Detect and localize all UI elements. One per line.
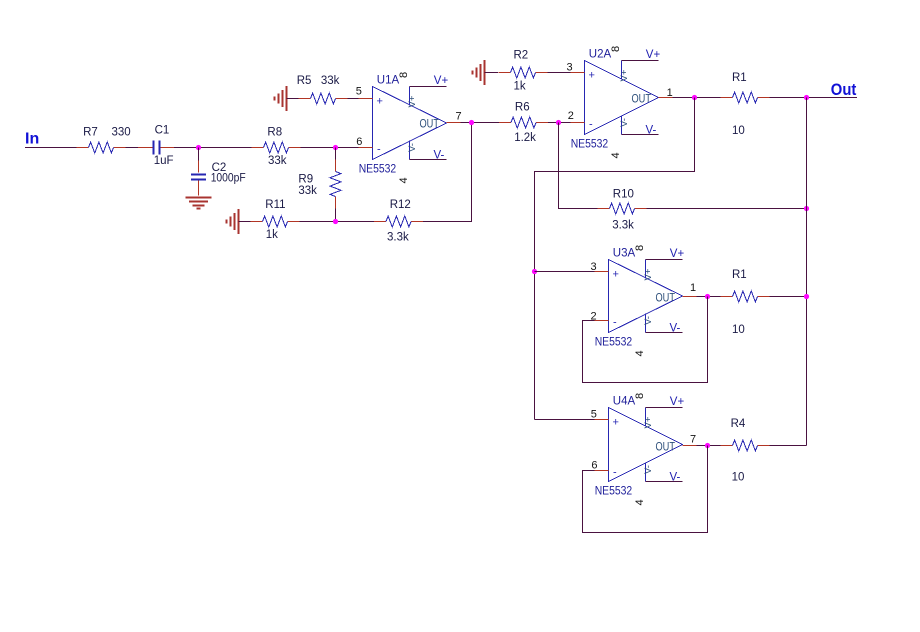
op-amp U2A [571,61,673,135]
svg-text:V+: V+ [407,95,418,107]
junction node B [333,145,338,150]
svg-text:+: + [589,70,595,82]
svg-text:5: 5 [591,408,597,420]
ground GND C2 [186,198,212,209]
wire C1 to R8 [174,147,252,149]
svg-text:4: 4 [634,499,646,505]
wire R6 to U2A pin 2 [548,122,571,124]
svg-text:10: 10 [732,324,745,336]
svg-text:NE5532: NE5532 [571,139,609,151]
svg-text:U4A: U4A [613,396,636,408]
ground GND R11 [227,209,239,234]
wire R2 to U2A pin 3 [548,72,571,74]
svg-text:V+: V+ [670,248,685,260]
svg-text:1uF: 1uF [154,155,174,167]
svg-text:OUT: OUT [632,94,652,106]
svg-text:V-: V- [646,124,657,136]
junction node C [333,219,338,224]
wire R1 to right rail [770,296,807,298]
svg-text:NE5532: NE5532 [595,486,633,498]
ground GND R2 [473,60,485,85]
op-amp U3A [595,260,697,333]
wire U3A pin 1 to R1 [697,296,721,298]
svg-text:8: 8 [634,393,646,399]
svg-text:U2A: U2A [589,49,612,61]
svg-text:+: + [377,96,383,108]
wire R12 up to node D [423,123,472,222]
junction node D [469,120,474,125]
wire U3A feedback [583,297,708,383]
svg-text:U3A: U3A [613,248,636,260]
resistor R10 [598,203,647,214]
svg-text:R6: R6 [515,102,530,114]
wire R10 to right rail [647,208,807,210]
svg-text:NE5532: NE5532 [359,164,397,176]
svg-text:V+: V+ [643,416,654,428]
svg-text:V+: V+ [619,69,630,81]
svg-text:1k: 1k [266,229,278,241]
svg-text:V-: V- [434,149,445,161]
svg-text:1: 1 [690,282,696,294]
resistor R4 [721,440,770,451]
svg-text:4: 4 [610,152,622,158]
wire right rail [806,98,808,446]
svg-text:3: 3 [567,61,573,73]
op-amp U1A [359,87,461,160]
resistor R6 [499,117,548,128]
svg-text:+: + [613,417,619,429]
svg-text:V+: V+ [434,75,449,87]
svg-text:V+: V+ [670,396,685,408]
svg-text:-: - [613,467,617,479]
svg-text:8: 8 [610,46,622,52]
junction node F [692,95,697,100]
wire node B down to R9 [335,148,337,160]
capacitor C1 [138,141,174,155]
svg-text:V-: V- [643,465,654,474]
svg-text:10: 10 [732,125,745,137]
wire In to R7 [25,147,77,149]
resistor R5 [299,93,348,104]
svg-text:1: 1 [667,87,673,99]
svg-text:V+: V+ [646,49,661,61]
svg-text:3: 3 [591,261,597,273]
junction node J [705,294,710,299]
junction node A [196,145,201,150]
svg-text:33k: 33k [321,75,340,87]
svg-text:C1: C1 [155,125,170,137]
svg-text:33k: 33k [298,185,317,197]
wire node E to R10 [559,123,598,209]
wire U1A pin 7 to R6 [461,122,500,124]
svg-text:OUT: OUT [420,119,440,131]
capacitor C2 [191,161,206,196]
wire gnd to R11 [239,221,251,223]
svg-text:7: 7 [456,111,462,123]
svg-text:6: 6 [356,136,362,148]
junction node H [532,269,537,274]
wire R11 to node C [300,221,375,223]
svg-text:4: 4 [398,177,410,183]
resistor R9 [330,160,341,209]
svg-text:8: 8 [634,245,646,251]
wire R9 to node C [335,209,337,222]
svg-text:R2: R2 [514,50,529,62]
svg-text:V-: V- [643,316,654,325]
resistor R11 [251,216,300,227]
svg-text:OUT: OUT [656,442,676,454]
resistor R12 [374,216,423,227]
svg-text:+: + [613,269,619,281]
svg-text:R8: R8 [267,126,282,138]
wire R7 to C1 [126,147,139,149]
svg-text:U1A: U1A [377,75,400,87]
svg-text:-: - [613,317,617,329]
wire U4A pin 7 to R4 [697,445,721,447]
svg-text:4: 4 [634,350,646,356]
resistor R2 [499,67,548,78]
op-amp U4A [595,408,697,482]
wire U2A pin 1 to R1 [673,97,721,99]
svg-text:7: 7 [690,433,696,445]
wire left rail to U4A pin 5 [535,419,595,421]
wire node A down to C2 [198,148,200,161]
svg-text:R1: R1 [732,72,747,84]
svg-text:5: 5 [356,85,362,97]
svg-text:2: 2 [568,110,574,122]
junction node L [705,443,710,448]
junction node I [804,206,809,211]
svg-text:330: 330 [112,126,131,138]
svg-text:10: 10 [732,472,745,484]
svg-text:3.3k: 3.3k [612,219,634,231]
svg-text:V-: V- [619,118,630,127]
svg-text:8: 8 [398,72,410,78]
svg-text:V-: V- [670,322,681,334]
svg-text:R10: R10 [613,188,634,200]
svg-text:-: - [589,119,593,131]
wire U4A feedback [583,446,708,533]
svg-text:1000pF: 1000pF [211,173,246,185]
svg-text:6: 6 [591,459,597,471]
svg-text:R9: R9 [298,174,313,186]
junction node E [556,120,561,125]
svg-text:R4: R4 [731,418,746,430]
resistor R1 (U2A) [721,92,770,103]
svg-text:Out: Out [831,80,857,99]
wire R8 to U1A pin 6 [301,147,359,149]
wire R5 to U1A pin 5 [348,98,359,100]
svg-text:V-: V- [670,471,681,483]
svg-text:R1: R1 [732,269,747,281]
svg-text:In: In [25,131,39,148]
wire gnd to R5 [287,98,299,100]
svg-text:R7: R7 [83,126,98,138]
wire U2A feedback [535,98,695,420]
resistor R1 (U3A) [721,291,770,302]
svg-text:R11: R11 [265,199,285,211]
svg-text:-: - [377,144,381,156]
svg-text:1k: 1k [514,80,526,92]
wire gnd to R2 [485,72,499,74]
wire node H to U3A pin 3 [535,271,595,273]
svg-text:R5: R5 [297,75,312,87]
svg-text:V-: V- [407,143,418,152]
svg-text:1.2k: 1.2k [514,132,536,144]
wire R1 to Out [770,97,858,99]
junction node G [804,95,809,100]
ground GND R5 [275,86,287,111]
resistor R7 [77,142,126,153]
svg-text:33k: 33k [268,155,287,167]
svg-text:OUT: OUT [656,293,676,305]
svg-text:V+: V+ [643,268,654,280]
resistor R8 [252,142,301,153]
svg-text:NE5532: NE5532 [595,337,633,349]
svg-text:R12: R12 [390,199,411,211]
wire R4 to right rail [770,445,807,447]
junction node K [804,294,809,299]
svg-text:3.3k: 3.3k [387,232,409,244]
